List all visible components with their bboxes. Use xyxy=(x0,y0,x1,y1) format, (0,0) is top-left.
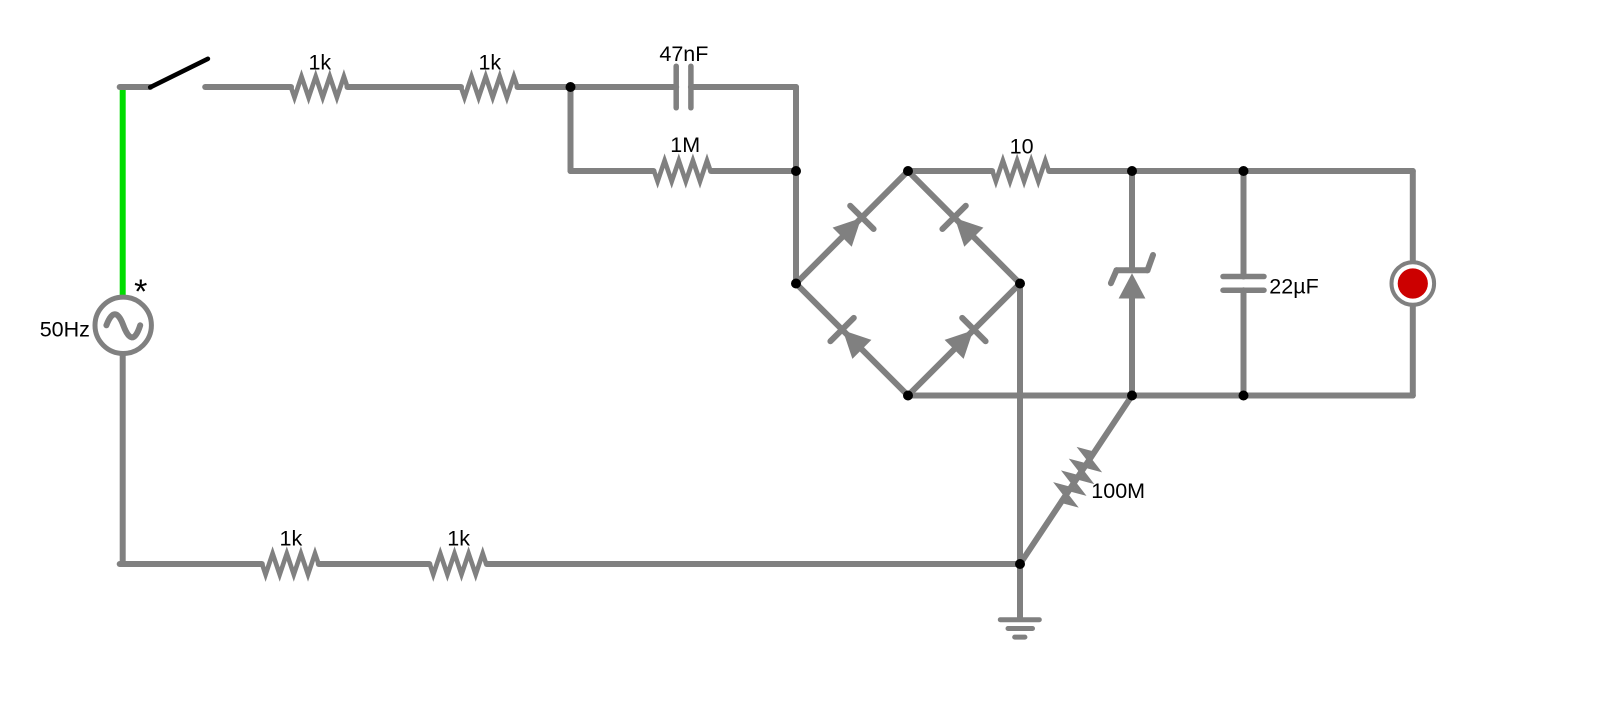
wire xyxy=(487,561,1020,567)
svg-text:1k: 1k xyxy=(308,50,331,74)
svg-text:*: * xyxy=(134,273,147,311)
bridge top node xyxy=(903,166,913,176)
wire xyxy=(205,84,291,90)
bridge left node xyxy=(791,279,801,289)
svg-text:50Hz: 50Hz xyxy=(40,317,90,341)
node B junction xyxy=(791,166,801,176)
wire xyxy=(120,87,126,295)
wire xyxy=(793,87,799,171)
wire xyxy=(120,561,262,567)
capacitor C2 22uF xyxy=(1223,274,1319,298)
bridge right node xyxy=(1015,279,1025,289)
svg-text:1k: 1k xyxy=(478,50,501,74)
diode D2 (bridge right->top) xyxy=(908,171,1020,284)
resistor R3 1k xyxy=(262,527,319,575)
resistor R7 100M xyxy=(1020,396,1145,565)
diode D4 (bridge bottom->right) xyxy=(908,284,1020,396)
diode D1 (bridge left->top) xyxy=(796,171,908,284)
svg-text:100M: 100M xyxy=(1091,479,1145,503)
wire xyxy=(711,168,796,174)
wire xyxy=(908,393,1413,399)
wire xyxy=(348,84,462,90)
wire xyxy=(568,87,574,171)
wire xyxy=(1129,171,1135,268)
svg-text:1k: 1k xyxy=(280,527,303,551)
node zener bottom xyxy=(1127,391,1137,401)
wire xyxy=(518,84,677,90)
ground xyxy=(1000,564,1039,637)
wire xyxy=(1241,290,1247,395)
resistor R6 1M xyxy=(654,133,711,181)
wire xyxy=(1129,298,1135,396)
bridge bottom node xyxy=(903,391,913,401)
wire xyxy=(1410,307,1416,396)
wire xyxy=(120,84,151,90)
resistor R1 1k xyxy=(291,50,348,97)
svg-text:47nF: 47nF xyxy=(659,42,708,66)
wire xyxy=(1049,168,1413,174)
node cap C2 bottom xyxy=(1239,391,1249,401)
wire xyxy=(793,171,799,284)
svg-text:1M: 1M xyxy=(670,133,700,157)
svg-text:1k: 1k xyxy=(447,527,470,551)
wire xyxy=(908,168,992,174)
ground node junction xyxy=(1015,559,1025,569)
wire xyxy=(1017,284,1023,565)
wire xyxy=(571,168,654,174)
diode D3 (bridge bottom->left) xyxy=(796,284,908,396)
zener diode D5 xyxy=(1111,255,1153,299)
wire xyxy=(120,356,126,564)
node A junction xyxy=(566,82,576,92)
LED (lit, red) xyxy=(1392,262,1435,305)
resistor R5 10 xyxy=(992,134,1048,181)
AC source V1 50Hz xyxy=(95,297,151,353)
wire xyxy=(1410,171,1416,260)
wire xyxy=(691,84,796,90)
wire xyxy=(1241,171,1247,277)
resistor R4 1k xyxy=(430,527,486,575)
node cap C2 top xyxy=(1239,166,1249,176)
wire xyxy=(319,561,430,567)
svg-text:10: 10 xyxy=(1010,134,1034,158)
switch SW1 lever xyxy=(150,59,208,88)
svg-text:22µF: 22µF xyxy=(1269,274,1318,298)
resistor R2 1k xyxy=(461,50,518,97)
capacitor C1 47nF xyxy=(659,42,708,108)
node zener top xyxy=(1127,166,1137,176)
